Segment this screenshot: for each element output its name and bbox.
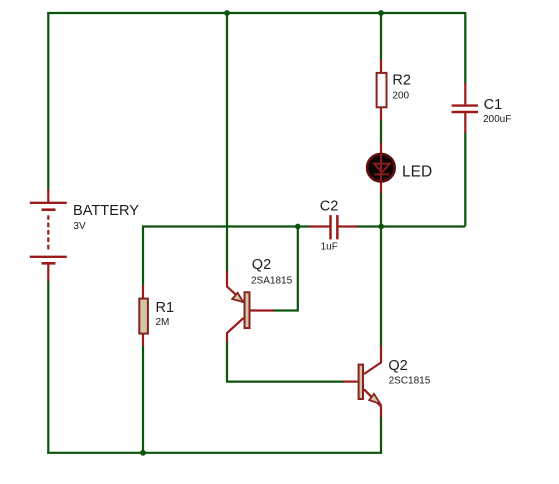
svg-text:Q2: Q2 — [252, 257, 271, 273]
svg-text:C2: C2 — [320, 199, 339, 215]
svg-text:R2: R2 — [392, 73, 411, 89]
svg-text:200uF: 200uF — [483, 114, 511, 125]
svg-text:C1: C1 — [484, 97, 503, 113]
svg-text:2SC1815: 2SC1815 — [389, 375, 431, 386]
svg-text:BATTERY: BATTERY — [73, 203, 139, 219]
svg-text:Q2: Q2 — [388, 358, 407, 374]
svg-text:R1: R1 — [156, 300, 175, 316]
svg-text:2SA1815: 2SA1815 — [251, 276, 293, 287]
svg-text:2M: 2M — [156, 317, 170, 328]
svg-text:LED: LED — [402, 164, 432, 181]
svg-text:200: 200 — [392, 90, 409, 101]
svg-text:1uF: 1uF — [321, 241, 338, 252]
svg-text:3V: 3V — [73, 221, 86, 232]
